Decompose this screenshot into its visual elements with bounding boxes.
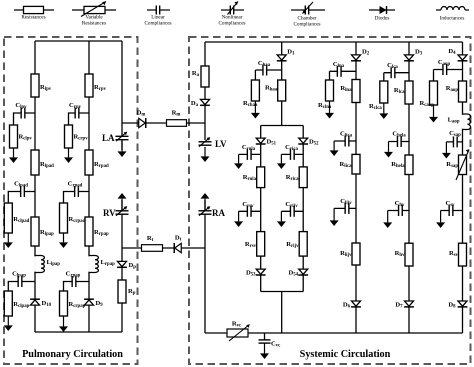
diode D8 xyxy=(448,301,467,309)
chamber compliance RV xyxy=(103,206,129,218)
inductor Lrpap xyxy=(88,256,115,273)
svg-text:Systemic Circulation: Systemic Circulation xyxy=(300,349,391,360)
ground Crula xyxy=(234,154,243,169)
capacitor Crsv xyxy=(242,201,254,217)
ground xyxy=(4,316,13,331)
resistor Rchaa xyxy=(243,80,259,108)
resistor Rsap xyxy=(446,155,466,175)
wire Crpad branch xyxy=(64,192,90,204)
wire Chaa drop xyxy=(254,70,256,80)
svg-text:Inductances: Inductances xyxy=(440,16,465,22)
capacitor Crijv xyxy=(285,201,298,217)
ground xyxy=(429,105,438,123)
wire LA to LV (mitral path) xyxy=(122,122,205,124)
capacitor Chela xyxy=(392,131,406,148)
capacitor Clpad xyxy=(14,181,28,198)
resistor Rclpv xyxy=(10,125,33,148)
ground Cvc xyxy=(260,344,269,360)
resistor Ra xyxy=(192,66,209,87)
wire S2 main xyxy=(281,42,283,126)
resistor Rrpv xyxy=(85,74,107,97)
ground Chv xyxy=(383,211,392,229)
wire S4 main xyxy=(408,42,410,333)
wire Clpv branch xyxy=(14,113,36,125)
svg-text:Resistances: Resistances xyxy=(82,21,106,27)
resistor Rrula xyxy=(243,167,265,188)
diode D2 xyxy=(351,49,370,61)
svg-text:RV: RV xyxy=(103,208,116,218)
diode D10 xyxy=(30,299,52,308)
wire Clca drop xyxy=(383,73,385,81)
wire Crijv branch xyxy=(281,210,303,212)
wire Clijv branch xyxy=(334,207,356,209)
diode D53 xyxy=(246,269,266,277)
chamber compliance RA xyxy=(199,206,226,218)
variable arrow Rvc xyxy=(229,325,250,342)
svg-text:Diodes: Diodes xyxy=(375,16,390,22)
ground Crica xyxy=(277,154,286,169)
legend inductor symbol xyxy=(436,7,469,22)
diode D7 xyxy=(395,301,414,309)
wire S3 main xyxy=(355,42,357,333)
wire Cvc top xyxy=(264,333,266,340)
ground xyxy=(9,148,18,163)
ground Csap xyxy=(442,142,451,159)
diode Da xyxy=(191,99,210,107)
legend chamber compliance symbol xyxy=(291,2,325,28)
ground xyxy=(64,148,73,163)
resistor Rlca xyxy=(394,81,413,104)
wire Crpv branch xyxy=(69,113,90,125)
wire S5 main xyxy=(462,42,464,333)
diode D51 xyxy=(256,138,277,146)
capacitor Clna xyxy=(333,61,345,77)
svg-text:LA: LA xyxy=(102,133,115,143)
resistor Rlpv xyxy=(31,74,52,97)
ground xyxy=(325,101,334,119)
legend linear compliance symbol xyxy=(144,6,171,27)
resistor Rlna xyxy=(340,80,360,103)
ground xyxy=(59,233,68,248)
diode Dt xyxy=(174,235,181,254)
capacitor Clpv xyxy=(15,102,27,119)
resistor Rrpad xyxy=(85,150,109,175)
capacitor Chv xyxy=(395,200,405,216)
diode D4 xyxy=(448,48,467,61)
resistor Rclna xyxy=(318,80,334,110)
wire Clpad branch xyxy=(8,192,35,204)
systemic circulation dashed box xyxy=(189,37,471,364)
resistor Rvc xyxy=(227,321,248,338)
wire Csv branch xyxy=(441,210,463,212)
capacitor Crpad xyxy=(68,181,83,198)
capacitor Clca xyxy=(387,62,398,78)
resistor Rrpap xyxy=(85,217,109,246)
svg-text:Resistances: Resistances xyxy=(21,15,45,21)
ground Clijv xyxy=(330,208,339,226)
wire LV column xyxy=(204,42,206,123)
wire Clca branch xyxy=(384,72,409,74)
resistor Rcrpv xyxy=(65,125,89,148)
capacitor Cvc xyxy=(259,340,282,348)
svg-text:Compliances: Compliances xyxy=(144,21,171,27)
ground xyxy=(251,101,260,119)
diode D1 xyxy=(277,49,295,61)
diode Dp xyxy=(117,261,136,269)
diode D54 xyxy=(288,269,308,277)
ground Crijv xyxy=(277,211,286,227)
resistor Rclpap xyxy=(4,291,29,316)
wire LA feed xyxy=(121,41,123,123)
inductor Llpap xyxy=(34,256,60,273)
svg-text:Compliances: Compliances xyxy=(218,21,245,27)
svg-text:Pulmonary Circulation: Pulmonary Circulation xyxy=(22,349,123,360)
ground xyxy=(379,103,388,119)
resistor Rcrpad xyxy=(60,203,86,233)
wire S2 down to bus xyxy=(281,292,283,334)
wire Crula branch xyxy=(239,153,261,155)
resistor Rm xyxy=(167,110,187,127)
diode D52 xyxy=(298,138,319,146)
wire Clpap branch xyxy=(8,282,35,292)
wire RA to RV (tricuspid path) xyxy=(122,247,205,249)
wire Crpap branch xyxy=(64,282,90,292)
wire Chela branch xyxy=(389,141,410,143)
capacitor Crica xyxy=(285,144,298,160)
ground Csv xyxy=(436,211,445,229)
resistor Raop xyxy=(446,81,467,102)
wire Crica branch xyxy=(281,153,303,155)
resistor Rlica xyxy=(340,154,360,174)
capacitor Crpap xyxy=(66,271,81,288)
legend resistor symbol xyxy=(14,6,54,20)
resistor Rt xyxy=(142,235,163,251)
resistor Rsv xyxy=(449,243,467,266)
arrow above RV xyxy=(118,193,127,211)
wire pulmonary left column xyxy=(34,41,36,332)
legend diode symbol xyxy=(369,6,395,22)
wire systemic bottom bus xyxy=(205,332,463,334)
wire pulmonary top bus xyxy=(35,40,122,42)
ground below LV xyxy=(201,147,210,162)
resistor Rhaa xyxy=(265,80,286,101)
resistor Rrijv xyxy=(286,232,307,257)
ground xyxy=(59,316,68,332)
wire S2 right sub xyxy=(302,126,304,292)
wire pulmonary right column xyxy=(88,41,90,332)
diode D9 xyxy=(84,299,103,308)
wire Chv branch xyxy=(388,210,409,212)
capacitor Crpv xyxy=(69,102,82,119)
wire Csap branch xyxy=(446,141,462,143)
wire LV stub xyxy=(204,123,206,140)
arrow above RA xyxy=(201,193,210,211)
wire S2 split top xyxy=(261,125,304,127)
wire Clica branch xyxy=(334,140,356,142)
diode Dm xyxy=(137,110,146,129)
resistor Rhv xyxy=(395,243,413,266)
resistor Rhela xyxy=(391,155,413,175)
resistor Rcaop xyxy=(420,81,438,108)
resistor Rlpad xyxy=(31,150,54,175)
ground Clica xyxy=(330,141,339,156)
svg-text:LV: LV xyxy=(215,139,227,149)
capacitor Clpap xyxy=(12,271,26,288)
variable arrow Rsap xyxy=(456,150,469,181)
resistor Rlpap xyxy=(31,217,54,246)
wire Caop branch xyxy=(434,69,463,71)
ground xyxy=(4,233,13,248)
svg-text:Compliances: Compliances xyxy=(293,22,320,28)
wire Caop drop xyxy=(433,70,435,82)
resistor Rlijv xyxy=(340,243,360,265)
wire LA branch down xyxy=(121,123,123,150)
legend nonlinear compliance symbol xyxy=(218,2,245,27)
diode D6 xyxy=(343,301,361,309)
capacitor Csap xyxy=(449,130,461,147)
wire S2 left sub xyxy=(260,126,262,292)
resistor Rp xyxy=(118,280,136,303)
resistor Rrsv xyxy=(245,232,265,257)
ground Chela xyxy=(384,142,393,158)
chamber compliance LA xyxy=(102,132,129,143)
capacitor Csv xyxy=(445,200,455,216)
wire Clna branch xyxy=(330,70,357,72)
resistor Rrica xyxy=(286,167,307,188)
wire Clna drop xyxy=(329,71,331,80)
wire pulmonary bottom bus xyxy=(35,331,122,333)
resistor Rclca xyxy=(369,81,388,111)
resistor Rclpad xyxy=(4,203,29,233)
resistor Rcrpap xyxy=(60,291,86,316)
capacitor Chaa xyxy=(258,60,271,76)
capacitor Crula xyxy=(242,144,256,160)
svg-text:RA: RA xyxy=(212,208,225,218)
capacitor Clica xyxy=(340,131,353,147)
wire Crsv branch xyxy=(239,210,261,212)
capacitor Caop xyxy=(438,59,451,75)
ground below LA xyxy=(118,141,127,157)
pulmonary circulation dashed box xyxy=(4,37,138,364)
wire RA column xyxy=(204,200,206,333)
capacitor Clijv xyxy=(340,198,352,214)
wire systemic top bus xyxy=(205,41,463,43)
chamber compliance LV xyxy=(199,137,228,149)
diode D3 xyxy=(404,49,423,61)
legend variable resistor symbol xyxy=(72,2,116,27)
wire Chaa branch xyxy=(255,69,281,71)
wire RV column xyxy=(121,200,123,332)
ground Crsv xyxy=(234,211,243,227)
inductor Laop xyxy=(448,114,471,130)
wire S2 merge xyxy=(261,291,304,293)
